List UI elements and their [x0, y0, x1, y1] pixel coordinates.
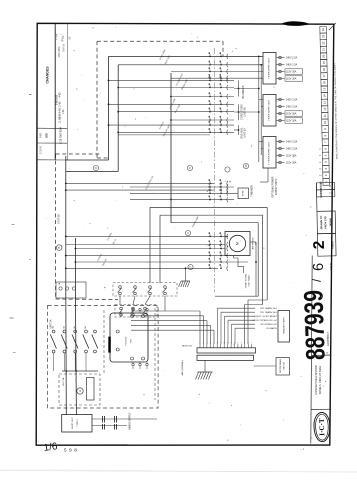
capacitor pair 2 — [114, 416, 116, 423]
fuse box small — [234, 192, 238, 194]
svg-text:748946: 748946 — [329, 217, 332, 226]
right fan wires from risers — [248, 299, 267, 301]
circled ref 3 — [225, 167, 230, 172]
contact pair group4a — [209, 199, 211, 201]
svg-text:SHEET: SHEET — [319, 188, 323, 197]
svg-text:240V 2.5A: 240V 2.5A — [286, 64, 298, 67]
contact pair upper feed — [209, 64, 211, 66]
svg-text:4A10 (SIGNAL): 4A10 (SIGNAL) — [181, 360, 184, 375]
junction dots daisy chain — [258, 56, 260, 58]
svg-text:MK4/PLUG: MK4/PLUG — [182, 346, 193, 348]
svg-text:2/64 4/64: 2/64 4/64 — [57, 46, 61, 57]
wires into air switch — [225, 235, 228, 237]
circled ref 10 — [243, 163, 248, 168]
earth symbol upper — [185, 268, 187, 280]
circled ref A lower — [77, 388, 83, 394]
svg-text:10: 10 — [244, 164, 248, 168]
stubs into filter unit 2 — [259, 99, 263, 101]
riser corner wires x150 x160 x171 — [150, 206, 267, 208]
small rect lower connector — [87, 378, 95, 401]
signal earth stub — [204, 360, 206, 372]
bus junctions lower — [65, 370, 67, 372]
contact pair upper feed — [209, 77, 211, 79]
issue sheet header boxes — [316, 183, 334, 190]
left fan wires into connector — [131, 310, 200, 312]
divider above compactor block — [312, 354, 332, 357]
filter unit 1 fuse outputs — [276, 57, 279, 59]
svg-text:115V 30A: 115V 30A — [286, 113, 297, 116]
contact pair group4 — [209, 183, 211, 185]
svg-text:17: 17 — [322, 74, 326, 78]
svg-text:FS1 FS2: FS1 FS2 — [126, 336, 128, 345]
svg-text:1/6: 1/6 — [43, 441, 59, 454]
transmitters box — [278, 311, 290, 343]
svg-text:UNIT 5A: UNIT 5A — [62, 377, 65, 386]
filter supply unit box 3 — [263, 137, 276, 169]
wire exits group2 core store — [234, 111, 259, 113]
supply daisy chain vertical to optional boxes — [258, 56, 260, 162]
svg-text:PROV STD: PROV STD — [324, 216, 327, 229]
svg-text:18: 18 — [322, 67, 326, 71]
isolator switch 1 — [52, 330, 55, 333]
relay coil circles — [116, 330, 119, 333]
wire top rail 1 — [109, 55, 264, 57]
contact pair group2 — [209, 104, 211, 106]
svg-text:FILTER SUPPLY UNIT: FILTER SUPPLY UNIT — [269, 99, 271, 120]
relay contact 2 row2 — [132, 307, 135, 310]
verticals linking contact rows — [119, 296, 121, 305]
vertical drop wires right side — [266, 207, 268, 300]
contact pair upper feed — [209, 71, 211, 73]
circled ref 5 — [187, 165, 192, 170]
wire top rail 2 — [118, 64, 263, 66]
wire mid rails to lower contacts — [66, 235, 228, 237]
svg-text:240V 2.5A: 240V 2.5A — [286, 141, 298, 144]
filter supply unit box 2 — [263, 95, 276, 127]
distrib panel small box — [276, 358, 290, 376]
svg-text:TRANSMITTERS: TRANSMITTERS — [283, 317, 286, 335]
svg-text:PANELS. CIRCUIT DIAG: PANELS. CIRCUIT DIAG — [318, 366, 322, 395]
contact pair group6 — [209, 255, 211, 257]
svg-text:UNIT 50: UNIT 50 — [244, 128, 247, 138]
filter supply unit box 1 — [263, 53, 276, 85]
strip left boundary — [315, 183, 318, 211]
title strip rotated group — [305, 26, 341, 282]
svg-text:SUPPLY UNITS: SUPPLY UNITS — [276, 178, 278, 195]
svg-text:B: B — [57, 247, 61, 249]
isolator switch 3 — [74, 330, 77, 333]
contact pair group1 — [209, 96, 211, 98]
svg-text:ISS: ISS — [45, 133, 49, 138]
svg-text:FILTER SUPPLY UNIT: FILTER SUPPLY UNIT — [269, 141, 271, 162]
svg-text:2 3 5 6: 2 3 5 6 — [39, 145, 43, 153]
svg-text:7: 7 — [251, 342, 252, 344]
svg-text:TYPE 2: TYPE 2 — [77, 418, 79, 426]
dashed enclosure middle unit 5B — [56, 153, 100, 155]
contact pair group6 — [209, 261, 211, 263]
svg-text:BLOWERS: BLOWERS — [241, 85, 245, 98]
svg-text:CORE STORE: CORE STORE — [246, 273, 248, 288]
page crease line at bottom — [0, 471, 357, 473]
contact pair group3 — [209, 124, 211, 126]
big sheet numeral 2 — [317, 233, 336, 256]
relay contact 4 row1 — [164, 286, 167, 289]
dashed enclosure upper unit — [97, 40, 223, 42]
relay contact 2 row1 — [134, 286, 137, 289]
extra contact pair x95 switch bank — [94, 330, 97, 333]
boxed output labels — [285, 69, 303, 74]
svg-text:887939: 887939 — [299, 290, 332, 361]
contact pair group4 — [209, 189, 211, 191]
power supply unit box — [62, 415, 92, 433]
svg-text:+6V RC INTERLOCK -6C: +6V RC INTERLOCK -6C — [252, 320, 277, 322]
svg-text:COMPACTOR & DISTRIB: COMPACTOR & DISTRIB — [314, 365, 318, 395]
wire group to filter unit 1 — [171, 71, 263, 73]
circled ref 6 — [185, 230, 190, 235]
svg-text:+6V INTERLOCK: +6V INTERLOCK — [260, 324, 278, 326]
svg-text:10: 10 — [323, 120, 327, 124]
sheet-issue number column boxes — [320, 26, 330, 185]
relay box top pins — [132, 308, 134, 310]
wire lower right rail — [215, 295, 258, 297]
svg-text:12: 12 — [323, 107, 327, 111]
contact pair group6 — [209, 268, 211, 270]
svg-text:20: 20 — [322, 54, 326, 58]
scan noise specks — [46, 26, 326, 441]
svg-text:20V TRANS 30-0: 20V TRANS 30-0 — [260, 311, 278, 314]
svg-text:FILTER SUPPLY UNIT: FILTER SUPPLY UNIT — [269, 57, 271, 78]
svg-text:24: 24 — [321, 28, 325, 32]
contact pair group2 — [209, 119, 211, 121]
svg-text:4: 4 — [241, 342, 242, 344]
svg-text:SHEET: SHEET — [332, 240, 335, 249]
connector bar 2 — [197, 355, 254, 360]
contact pair group5 — [209, 248, 211, 250]
dashed inner connector box lower unit — [59, 374, 100, 405]
vertical feeder bus x171 — [170, 73, 172, 223]
earth wire upper — [185, 268, 187, 281]
relay box rounded — [110, 313, 148, 362]
relay contact row 1 dashed outline — [113, 283, 177, 297]
relay contact 1 row2 — [120, 307, 123, 310]
svg-text:DISTRIB PANEL: DISTRIB PANEL — [279, 359, 282, 373]
circled ref 8 — [93, 165, 98, 170]
svg-text:21: 21 — [321, 48, 325, 52]
wire group 4 rails — [66, 182, 214, 184]
svg-text:`: ` — [38, 441, 39, 445]
unit 5B left vertical bus — [65, 156, 67, 294]
svg-text:9/64 all: 9/64 all — [63, 44, 66, 52]
contact pair group2 — [209, 111, 211, 113]
isolator switch 4 — [85, 330, 88, 333]
transformer core bar — [108, 337, 111, 353]
svg-text:0V EARTH: 0V EARTH — [266, 327, 277, 330]
air pressure switch box — [225, 232, 250, 256]
wire corner joins to lower bus — [66, 159, 109, 161]
svg-text:ASSEMBLY: ASSEMBLY — [326, 332, 331, 347]
strip left boundary lower — [311, 256, 312, 444]
capacitor pair 1 — [102, 416, 104, 423]
stubs into filter unit 3 — [259, 141, 263, 143]
svg-text:CHANGES: CHANGES — [46, 66, 50, 84]
svg-text:7128 7567 8284: 7128 7567 8284 — [60, 126, 63, 144]
margin speck marks — [29, 94, 32, 95]
margin dash left mid — [10, 318, 14, 319]
drawn-to-prov-std box — [317, 211, 336, 234]
svg-text:ISSUE: ISSUE — [330, 262, 333, 270]
relay contact 1 row1 — [119, 286, 122, 289]
contact pair group4a — [209, 193, 211, 195]
wire group 3 one mail unit — [108, 124, 110, 126]
filter unit 3 fuse outputs — [276, 141, 279, 143]
contact pair group3 — [209, 132, 211, 134]
svg-text:2: 2 — [311, 240, 328, 249]
wire group 4a with fuse box — [130, 186, 234, 188]
svg-text:6: 6 — [311, 263, 327, 271]
filter unit 2 fuse outputs — [276, 99, 279, 101]
svg-text:11-65: 11-65 — [59, 116, 62, 123]
top small connector box lower-left — [56, 282, 86, 298]
svg-text:240V 2.5A: 240V 2.5A — [286, 106, 298, 109]
mains output wires — [92, 418, 157, 420]
svg-text:M: M — [236, 242, 240, 245]
svg-text:13: 13 — [323, 101, 327, 105]
svg-text:TWEAKER: TWEAKER — [251, 185, 254, 197]
svg-text:20V TRANS 30-0: 20V TRANS 30-0 — [260, 307, 278, 310]
svg-text:19: 19 — [322, 61, 326, 65]
svg-text:115V 30A: 115V 30A — [286, 78, 297, 81]
left fan feeders from contact row verticals — [120, 311, 122, 317]
drawing number 887939 — [299, 290, 332, 361]
isolator switch 2 — [63, 330, 66, 333]
contact pair upper feed — [209, 56, 211, 58]
svg-text:15: 15 — [322, 87, 326, 91]
svg-text:8-65: 8-65 — [41, 132, 43, 137]
dashed enclosure lower unit 5A — [48, 306, 159, 409]
plug-socket contact column chain line — [214, 48, 216, 292]
air switch lower connection — [234, 256, 244, 274]
wires into power box — [65, 414, 67, 417]
svg-text:UNIT 5A: UNIT 5A — [244, 107, 247, 117]
second dashed edge lower box — [154, 308, 156, 400]
contact pair group5 — [209, 244, 211, 246]
circled ref B — [56, 245, 62, 251]
dashed internal partition — [103, 310, 105, 374]
svg-text:23: 23 — [321, 34, 325, 38]
svg-text:A: A — [78, 390, 82, 392]
relay contact row 2 dashed outline — [115, 305, 157, 318]
wire exits group1 to blowers label — [234, 88, 259, 90]
svg-text:240V 2.5A: 240V 2.5A — [286, 57, 298, 60]
earth symbol signal — [198, 371, 213, 373]
pin micro labels — [199, 342, 252, 344]
relay box bottom pins — [132, 363, 134, 365]
svg-text:(2)EXT -6V RC RESET: (2)EXT -6V RC RESET — [254, 316, 277, 318]
dark smudge on top border — [282, 21, 310, 26]
svg-text:DRAWN TO: DRAWN TO — [320, 216, 323, 230]
svg-text:11: 11 — [323, 114, 327, 117]
svg-text:240V 2.5A: 240V 2.5A — [286, 148, 298, 151]
wire group 2 core store — [108, 103, 110, 105]
contact pair group4a — [209, 186, 211, 188]
contact pair group1 — [209, 80, 211, 82]
lower horizontal junction rail — [62, 370, 98, 372]
wire group 1 blowers — [109, 79, 235, 81]
bus continues down to lower unit — [65, 294, 68, 415]
svg-text:UNIT 5B: UNIT 5B — [284, 362, 286, 370]
svg-text:I·C·T: I·C·T — [318, 418, 327, 436]
svg-text:16: 16 — [322, 81, 326, 85]
wire exits group3 one mail unit — [234, 129, 239, 131]
pin number smudges contact column — [209, 52, 221, 266]
svg-text:115V 30A: 115V 30A — [286, 120, 297, 123]
sheet border frame — [36, 23, 334, 445]
svg-text:5 9 8: 5 9 8 — [64, 448, 77, 453]
svg-text:4-65: 4-65 — [59, 92, 62, 98]
svg-text:SUPP UNIT: SUPP UNIT — [72, 417, 74, 429]
small connector circles at bus bend — [59, 287, 62, 290]
svg-text:115V 30A: 115V 30A — [286, 162, 297, 165]
svg-text:2-64: 2-64 — [54, 33, 59, 40]
air pressure switch motor circle — [229, 235, 245, 251]
svg-text:MAINS SUPPLY: MAINS SUPPLY — [129, 412, 132, 429]
svg-text:UNIT 5B: UNIT 5B — [58, 214, 61, 224]
wire connector2 to distrib box — [254, 365, 277, 367]
revision table ISS/CHANGES — [54, 24, 56, 161]
svg-text:14: 14 — [322, 94, 326, 98]
ICT logo egg oval — [314, 412, 331, 442]
optional power supply units bracket — [267, 168, 269, 182]
wire bus vertical left pair — [108, 56, 110, 160]
relay contact 3 row2 — [144, 307, 147, 310]
svg-text:UNIT 5A(2): UNIT 5A(2) — [248, 275, 251, 286]
handwritten slash top right — [329, 23, 336, 30]
svg-text:~ 2: ~ 2 — [300, 447, 305, 451]
issue digits small column — [318, 148, 323, 183]
svg-text:240V 2.5A: 240V 2.5A — [286, 99, 298, 102]
svg-text:AIR PRESS: AIR PRESS — [252, 237, 255, 249]
relay contact 3 row1 — [149, 286, 152, 289]
connector pin ticks — [200, 344, 252, 348]
svg-text:OPTIONAL POWER: OPTIONAL POWER — [272, 176, 275, 197]
svg-text:22: 22 — [321, 41, 325, 45]
contact pair group1 — [209, 87, 211, 89]
svg-text:115V 30A: 115V 30A — [286, 155, 297, 158]
contact pair group5 — [209, 236, 211, 238]
svg-text:FUSE: FUSE — [243, 190, 245, 196]
svg-text:3: 3 — [237, 342, 238, 344]
connector bar 1 — [197, 348, 256, 353]
svg-text:1-63: 1-63 — [62, 109, 65, 114]
svg-text:115V 30A: 115V 30A — [286, 71, 297, 74]
sheet numbers text — [321, 28, 328, 183]
circled ref 7 — [188, 264, 193, 269]
svg-text:5-66 8-65: 5-66 8-65 — [56, 94, 59, 105]
divider above ICT logo — [311, 408, 331, 410]
